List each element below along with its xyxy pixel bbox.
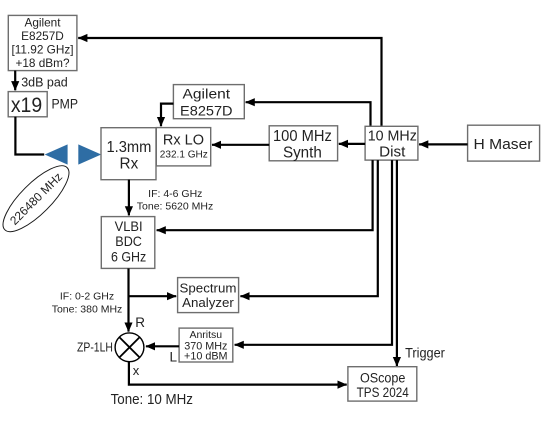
wire Agilent U1 output through 3dB pad to x19 [14, 71, 16, 91]
multiplier x19 box [8, 92, 47, 117]
svg-text:+10 dBM: +10 dBM [184, 351, 228, 363]
svg-text:x: x [133, 363, 140, 378]
wire x19 output to transmit horn [15, 117, 44, 155]
svg-text:[11.92 GHz]: [11.92 GHz] [11, 43, 73, 57]
wire 10 MHz Dist to Anritsu reference [235, 160, 392, 345]
wire 100 MHz Synth to Rx LO reference [212, 144, 269, 146]
spectrum analyzer box [178, 278, 239, 313]
svg-text:PMP: PMP [52, 95, 79, 111]
svg-text:Tone: 380 MHz: Tone: 380 MHz [52, 304, 123, 316]
svg-text:6 GHz: 6 GHz [111, 249, 146, 265]
svg-text:R: R [135, 315, 145, 330]
mixer ZP-1LH [115, 333, 144, 362]
svg-text:Spectrum: Spectrum [180, 281, 237, 296]
wire 10 MHz Dist to Spectrum Analyzer reference [240, 160, 377, 296]
wire 10 MHz Dist top to Agilent U2 reference input [246, 102, 371, 126]
frequency standard H Maser box [468, 125, 540, 161]
signal generator U2 Agilent E8257D box [173, 85, 244, 120]
svg-text:Anritsu: Anritsu [189, 329, 222, 341]
svg-text:x19: x19 [11, 94, 42, 117]
wire 10 MHz Dist top to Agilent U1 reference input [78, 38, 381, 126]
svg-text:Synth: Synth [283, 144, 322, 161]
svg-text:Rx: Rx [120, 156, 139, 173]
transmit horn antenna (blue triangle) [45, 144, 68, 164]
distributor 10 MHz Dist box [365, 126, 418, 160]
wire VLBI BDC output down to mixer R port [127, 268, 129, 331]
svg-text:3dB pad: 3dB pad [21, 76, 68, 90]
net label 226480 MHz (rotated ellipse) [0, 157, 78, 241]
svg-text:H Maser: H Maser [474, 136, 533, 153]
svg-text:Agilent: Agilent [24, 16, 61, 30]
downconverter VLBI BDC 6 GHz box [101, 217, 155, 269]
wire 10 MHz Dist to OScope trigger input [396, 160, 398, 366]
svg-text:Trigger: Trigger [405, 346, 445, 361]
wire mixer IF output to OScope [129, 361, 347, 384]
wire H Maser to 10 MHz Dist [419, 143, 468, 145]
wire 10 MHz Dist to VLBI BDC reference [157, 160, 373, 230]
svg-text:TPS 2024: TPS 2024 [357, 385, 410, 400]
receiver 1.3mm Rx box [101, 128, 156, 180]
receive horn antenna (blue triangle) [78, 144, 101, 164]
synthesizer 100 MHz Synth box [269, 126, 337, 162]
oscillator Anritsu 370 MHz box [179, 328, 233, 363]
svg-text:Rx LO: Rx LO [163, 133, 204, 149]
svg-text:BDC: BDC [115, 233, 142, 249]
wire junction VLBI BDC output to Spectrum Analyzer [129, 295, 177, 297]
svg-text:+18 dBm?: +18 dBm? [15, 56, 70, 70]
wire Agilent U2 to Rx LO input [161, 104, 173, 127]
svg-text:E8257D: E8257D [21, 29, 64, 43]
wire Anritsu to mixer L port [146, 345, 179, 347]
svg-text:L: L [170, 350, 178, 365]
svg-text:100 MHz: 100 MHz [273, 128, 332, 145]
svg-text:IF: 0-2 GHz: IF: 0-2 GHz [60, 290, 114, 302]
signal generator U1 Agilent E8257D box [8, 15, 77, 70]
local oscillator Rx LO 232.1 GHz box [156, 128, 210, 166]
svg-text:Tone: 5620 MHz: Tone: 5620 MHz [137, 201, 213, 213]
svg-text:Dist: Dist [379, 145, 405, 161]
svg-text:10 MHz: 10 MHz [368, 129, 417, 145]
svg-text:VLBI: VLBI [115, 218, 143, 234]
svg-text:IF: 4-6 GHz: IF: 4-6 GHz [148, 188, 202, 200]
svg-text:Tone: 10 MHz: Tone: 10 MHz [111, 391, 193, 408]
svg-text:ZP-1LH: ZP-1LH [77, 339, 113, 354]
svg-text:E8257D: E8257D [180, 104, 233, 120]
svg-text:232.1 GHz: 232.1 GHz [160, 150, 208, 161]
wire 10 MHz Dist to 100 MHz Synth reference [339, 143, 365, 145]
svg-text:Analyzer: Analyzer [182, 295, 234, 310]
oscilloscope OScope TPS 2024 box [348, 367, 417, 401]
wire 1.3mm Rx IF output to VLBI BDC [128, 180, 130, 216]
svg-text:1.3mm: 1.3mm [106, 139, 151, 156]
svg-text:OScope: OScope [360, 371, 406, 386]
svg-text:Agilent: Agilent [183, 87, 231, 103]
